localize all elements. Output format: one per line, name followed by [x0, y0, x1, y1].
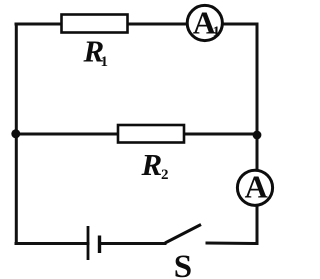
battery cell: short (negative) plate: [98, 236, 101, 254]
resistor R2: [118, 125, 184, 143]
wire: right vertical: [256, 24, 259, 244]
svg-text:1: 1: [101, 54, 109, 70]
wire: bottom middle segment: [100, 242, 165, 245]
wire: middle horizontal: [16, 133, 257, 136]
battery cell: long (positive) plate: [87, 226, 90, 260]
svg-text:A: A: [245, 169, 268, 205]
switch S blade: [165, 225, 201, 244]
wire: bottom left segment: [16, 242, 88, 245]
svg-text:R: R: [141, 147, 163, 182]
wire: top horizontal: [16, 23, 257, 26]
svg-text:1: 1: [213, 24, 221, 40]
wire: bottom right segment: [207, 242, 257, 246]
wire: left vertical: [15, 24, 18, 244]
node: left junction of middle branch: [11, 129, 20, 138]
ammeter A: [237, 170, 272, 205]
svg-text:2: 2: [161, 167, 169, 183]
node: right junction: [253, 131, 262, 140]
svg-text:S: S: [174, 249, 192, 279]
resistor R1: [62, 15, 128, 33]
ammeter A1: [187, 5, 222, 40]
